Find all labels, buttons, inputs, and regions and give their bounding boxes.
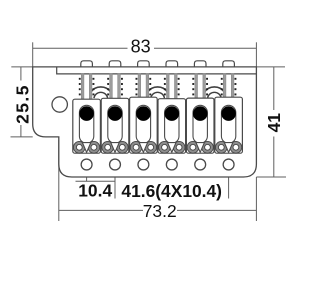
svg-text:73.2: 73.2: [143, 201, 177, 221]
svg-text:41.6(4X10.4): 41.6(4X10.4): [121, 181, 222, 201]
svg-text:41: 41: [264, 113, 284, 133]
svg-text:10.4: 10.4: [78, 181, 112, 201]
svg-text:25.5: 25.5: [12, 84, 32, 124]
svg-text:83: 83: [131, 36, 151, 56]
